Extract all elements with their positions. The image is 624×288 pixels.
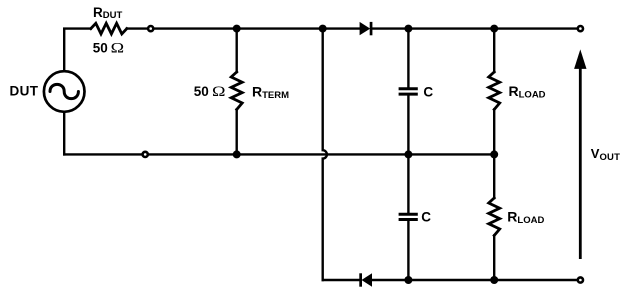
diode D1 (top, pointing right) [360,22,373,35]
wire top rail right of diode [372,27,580,29]
capacitor C1 plates [399,89,418,94]
diode D2 (bottom, pointing left) [359,273,372,286]
wire R_LOAD2 top lead [493,154,495,198]
arrow V_OUT head [574,49,586,69]
wire capacitor C1 bottom lead [407,96,409,155]
terminal node top-right [578,26,583,31]
wire vertical with crossover hop at x=322.7 [323,29,327,280]
resistor R_TERM zigzag [231,72,242,110]
svg-text:C: C [421,209,431,224]
capacitor C2 plates [399,214,418,219]
wire R_TERM top lead [235,29,237,72]
svg-text:Ω: Ω [212,82,225,99]
terminal node middle-left [143,152,148,157]
terminal node bottom-right [578,277,583,282]
wire top rail middle [127,27,360,29]
svg-text:50: 50 [194,84,209,99]
source U1 sine symbol [50,84,78,98]
junction dot top at hop column [319,25,327,33]
svg-text:C: C [423,84,433,99]
wire capacitor C2 top lead [407,154,409,212]
junction dot bottom at R_LOAD2 [490,276,498,284]
wire bottom rail right of diode [372,279,580,281]
wire R_LOAD2 bottom lead [493,236,495,281]
wire top rail left (DUT top to diode) [64,29,91,71]
wire capacitor C1 top lead [407,29,409,88]
svg-text:50: 50 [93,41,108,56]
junction dot middle at R_LOAD column [490,150,498,158]
wire middle rail [64,153,494,155]
junction dot top at R_TERM [233,25,241,33]
junction dot middle at C column [404,150,412,158]
junction dot bottom at C2 [404,276,412,284]
junction dot middle at R_TERM [233,150,241,158]
wire capacitor C2 bottom lead [407,221,409,280]
svg-text:DUT: DUT [10,84,39,99]
junction dot top at C1 [404,25,412,33]
resistor R_LOAD1 zigzag [489,72,500,110]
terminal node top-left [148,26,153,31]
wire R_TERM bottom lead [235,110,237,155]
source U1 DUT circle [44,71,85,112]
svg-text:Ω: Ω [111,39,124,56]
wire bottom rail left of diode [323,279,360,281]
junction dot top at R_LOAD1 [490,25,498,33]
wire R_LOAD1 bottom lead [493,110,495,155]
resistor R_DUT zigzag [91,23,127,34]
arrow V_OUT shaft [579,66,582,259]
resistor R_LOAD2 zigzag [489,198,500,236]
wire R_LOAD1 top lead [493,29,495,72]
wire DUT bottom lead [63,113,65,155]
